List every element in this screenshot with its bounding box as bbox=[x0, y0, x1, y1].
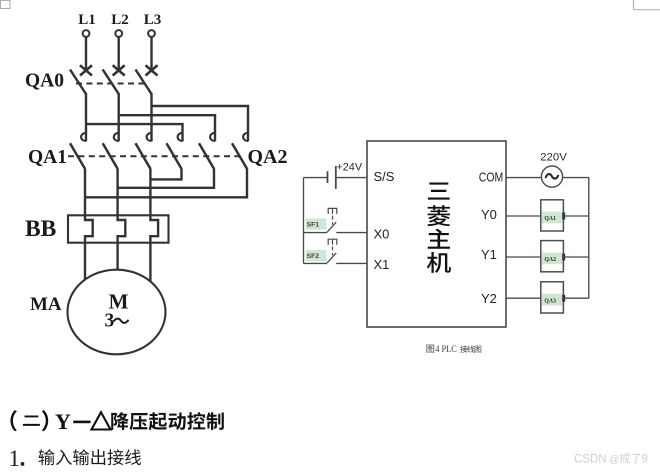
terminal L1 bbox=[83, 30, 90, 37]
wire motor lead W with BB heater jog bbox=[150, 169, 158, 282]
junction dot at coil QA1 right terminal bbox=[562, 213, 565, 220]
svg-text:Y1: Y1 bbox=[481, 247, 497, 262]
contactor coil QA2 box bbox=[541, 241, 564, 272]
push button SF2 actuator cap bbox=[328, 239, 337, 245]
terminal L3 bbox=[148, 30, 155, 37]
junction dot at coil QA3 right terminal bbox=[562, 295, 565, 302]
wire bbox=[85, 37, 87, 70]
wire L1 phase bbox=[85, 93, 87, 141]
contactor QA2 pole 1 blade bbox=[167, 143, 182, 169]
contactor QA2 pole 2 blade bbox=[199, 143, 214, 169]
svg-text:X1: X1 bbox=[374, 257, 390, 272]
wire coil QA3 to bus bbox=[563, 297, 588, 299]
contactor QA2 pole 3 blade bbox=[232, 143, 247, 169]
svg-text:L1: L1 bbox=[78, 12, 96, 28]
wire motor lead V with BB heater jog bbox=[118, 169, 126, 271]
contactor coil QA3 box bbox=[541, 282, 564, 313]
wire Y2 to coil QA3 bbox=[506, 297, 541, 299]
push button SF1 NO contact blade bbox=[327, 222, 336, 232]
input bus wire bbox=[303, 178, 305, 264]
svg-text:4 PLC: 4 PLC bbox=[435, 344, 457, 355]
wire L1 branch to QA2 bbox=[86, 124, 183, 141]
thermal overload relay BB box bbox=[68, 215, 169, 242]
wire Y1 to coil QA2 bbox=[506, 256, 541, 258]
svg-text:QA3: QA3 bbox=[544, 298, 556, 304]
svg-text:S/S: S/S bbox=[374, 169, 395, 184]
battery 24V supply: wire from bus bbox=[304, 177, 328, 179]
svg-text:L2: L2 bbox=[111, 12, 129, 28]
heading (二) Y-△降压起动控制 bbox=[10, 410, 16, 431]
figure caption 图4 PLC 接线图 bbox=[426, 345, 434, 353]
wire SF2 to PLC input bbox=[336, 262, 367, 264]
wire QA2 pole3 output to phase U bbox=[85, 169, 247, 198]
battery positive plate bbox=[335, 166, 337, 189]
svg-text:+24V: +24V bbox=[337, 162, 363, 174]
breaker contact X mark L1 bbox=[80, 65, 92, 75]
wire SF1 to PLC input bbox=[336, 232, 367, 234]
output bus wire bbox=[588, 178, 590, 299]
breaker QA0 blade bbox=[70, 70, 86, 95]
svg-text:X0: X0 bbox=[374, 227, 390, 242]
svg-text:Y2: Y2 bbox=[481, 291, 497, 306]
wire bus to SF2 bbox=[304, 262, 328, 264]
svg-text:SF2: SF2 bbox=[307, 253, 320, 260]
breaker contact X mark L3 bbox=[146, 65, 158, 75]
svg-text:QA1: QA1 bbox=[544, 216, 556, 222]
contactor QA1 pole 2 blade bbox=[103, 143, 118, 169]
contactor QA1 pole 3 fixed contact arc bbox=[147, 133, 152, 141]
breaker QA0 blade bbox=[103, 70, 119, 95]
svg-text:MA: MA bbox=[30, 294, 62, 315]
contactor coil QA1 label bbox=[542, 212, 563, 224]
battery negative plate bbox=[327, 171, 329, 183]
breaker QA0 linkage dashed line bbox=[76, 83, 145, 85]
contactor coil QA3 label bbox=[542, 294, 563, 306]
contactor QA2 pole 3 fixed contact arc bbox=[243, 133, 248, 141]
terminal L2 bbox=[115, 30, 122, 37]
svg-text:@: @ bbox=[609, 454, 619, 465]
contactor QA1 pole 1 blade bbox=[70, 143, 85, 169]
contactor QA2 pole 1 fixed contact arc bbox=[178, 133, 183, 141]
wire motor lead U with BB heater jog bbox=[85, 169, 93, 280]
contactor QA2 pole 2 fixed contact arc bbox=[210, 133, 215, 141]
svg-text:BB: BB bbox=[25, 216, 57, 242]
svg-text:1: 1 bbox=[9, 446, 21, 471]
breaker QA0 blade bbox=[136, 70, 152, 95]
push button SF1 actuator cap bbox=[328, 208, 337, 214]
contactor QA1 pole 2 fixed contact arc bbox=[114, 133, 119, 141]
contactor QA1 pole 3 blade bbox=[136, 143, 151, 169]
contactor QA1 pole 1 fixed contact arc bbox=[81, 133, 86, 141]
wire QA2 pole1 output to phase W bbox=[150, 169, 181, 180]
wire L2 phase bbox=[117, 93, 119, 141]
contactor coil QA2 label bbox=[542, 253, 563, 265]
wire L2 branch to QA2 bbox=[119, 115, 215, 141]
PLC main unit box U1 bbox=[367, 141, 506, 327]
svg-text:CSDN: CSDN bbox=[574, 453, 607, 465]
svg-text:Y: Y bbox=[55, 409, 71, 434]
svg-text:Y0: Y0 bbox=[481, 207, 497, 222]
wire AC source to output bus bbox=[563, 177, 589, 179]
svg-text:QA0: QA0 bbox=[25, 71, 64, 92]
wire Y0 to coil QA1 bbox=[506, 215, 541, 217]
svg-text:QA2: QA2 bbox=[248, 146, 288, 168]
svg-text:L3: L3 bbox=[144, 12, 162, 28]
svg-text:9: 9 bbox=[642, 453, 648, 465]
wire L3 branch to QA2 bbox=[152, 106, 249, 141]
push button SF1 actuator dashed stem bbox=[332, 216, 334, 225]
wire bbox=[150, 37, 152, 70]
contactor coil QA1 box bbox=[541, 200, 564, 231]
junction dot at coil QA2 right terminal bbox=[562, 254, 565, 261]
top-right corner frame artifact bbox=[634, 0, 660, 10]
wire bus to SF1 bbox=[304, 232, 328, 234]
motor MA circle bbox=[68, 270, 166, 355]
wire coil QA2 to bus bbox=[563, 256, 588, 258]
corner box artifact bbox=[1, 1, 11, 9]
push button SF2 actuator dashed stem bbox=[332, 246, 334, 255]
wire QA2 pole2 output to phase V bbox=[118, 169, 214, 188]
wire battery to S/S bbox=[336, 177, 367, 179]
wire L3 phase bbox=[150, 93, 152, 141]
AC source G1 circle bbox=[541, 166, 562, 187]
AC source sine symbol bbox=[546, 174, 559, 179]
push button SF2 label box bbox=[306, 250, 327, 261]
push button SF2 NO contact blade bbox=[327, 253, 336, 263]
wire bbox=[117, 37, 119, 70]
svg-text:QA2: QA2 bbox=[544, 257, 556, 263]
contactor QA1-QA2 linkage dashed line bbox=[68, 155, 244, 157]
svg-text:220V: 220V bbox=[540, 152, 567, 164]
wire coil QA1 to bus bbox=[563, 215, 588, 217]
push button SF1 label box bbox=[306, 218, 327, 229]
PLC vertical title 三菱主机 bbox=[428, 182, 450, 199]
svg-text:COM: COM bbox=[479, 170, 503, 185]
svg-text:SF1: SF1 bbox=[307, 222, 320, 229]
wire COM to AC source bbox=[506, 177, 541, 179]
svg-text:QA1: QA1 bbox=[28, 147, 67, 168]
breaker contact X mark L2 bbox=[113, 65, 125, 75]
